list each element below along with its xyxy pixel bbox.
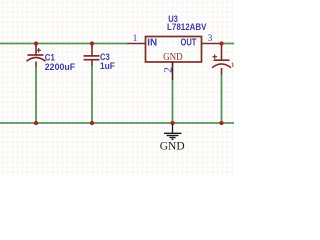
pin 1 number xyxy=(133,34,138,44)
junction C1 top xyxy=(34,41,38,45)
junction C1 bottom xyxy=(34,121,38,125)
pin name OUT xyxy=(181,38,197,49)
svg-text:1: 1 xyxy=(133,34,138,44)
right capacitor clipped label xyxy=(231,63,234,68)
capacitor right (polarized) xyxy=(212,45,231,75)
pin name GND xyxy=(163,52,183,63)
wire C3 vertical drop xyxy=(91,44,93,124)
capacitor C1 xyxy=(27,45,46,67)
svg-text:2: 2 xyxy=(163,67,175,73)
junction C3 bottom xyxy=(90,121,94,125)
pin 1 xyxy=(127,43,146,45)
pin 3 xyxy=(202,43,222,45)
svg-text:2200uF: 2200uF xyxy=(45,62,76,72)
svg-text:GND: GND xyxy=(163,52,183,63)
wire right capacitor drop xyxy=(221,74,223,123)
wire top rail right xyxy=(222,43,235,45)
pin 3 number xyxy=(208,34,213,44)
ground net label GND xyxy=(160,140,185,152)
pin 2 xyxy=(172,62,174,80)
junction right capacitor bottom xyxy=(219,121,223,125)
svg-text:1uF: 1uF xyxy=(100,61,115,71)
label C1 xyxy=(45,52,76,72)
svg-text:OUT: OUT xyxy=(181,38,197,49)
junction ground net xyxy=(170,121,174,125)
wire bottom rail xyxy=(0,122,234,124)
pin name IN xyxy=(147,38,157,49)
wire U3 ground drop xyxy=(172,80,174,123)
svg-text:GND: GND xyxy=(160,140,185,152)
wire top rail left xyxy=(0,43,127,45)
label C3 xyxy=(100,52,115,71)
junction C3 top xyxy=(90,41,94,45)
pin 2 number xyxy=(163,67,175,73)
junction OUT net xyxy=(219,41,223,45)
label U3 xyxy=(167,14,207,32)
svg-text:3: 3 xyxy=(208,34,213,44)
wire C1 vertical drop xyxy=(35,44,37,124)
svg-text:L7812ABV: L7812ABV xyxy=(167,22,207,32)
svg-text:C1: C1 xyxy=(45,52,55,62)
regulator U3 body xyxy=(146,37,202,63)
ground symbol xyxy=(164,124,182,139)
svg-text:IN: IN xyxy=(147,38,157,49)
capacitor C3 xyxy=(84,45,100,66)
